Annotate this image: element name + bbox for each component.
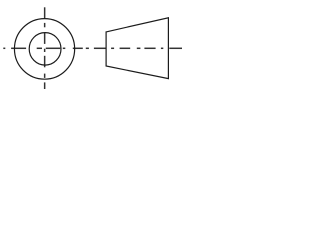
horizontal centerline (dash-dot through both views) [3, 47, 182, 49]
trapezoid (side view of frustum) [106, 18, 168, 79]
vertical centerline (dash-dot through circular front view) [44, 7, 46, 89]
background [0, 0, 189, 90]
outer circle (large base of cone, front view) [14, 19, 74, 80]
middle circle (small face of truncated cone, front view) [29, 33, 61, 66]
orthographic projection drawing of a truncated cone: front view (circles) + side view (trapezoid) [0, 0, 189, 90]
